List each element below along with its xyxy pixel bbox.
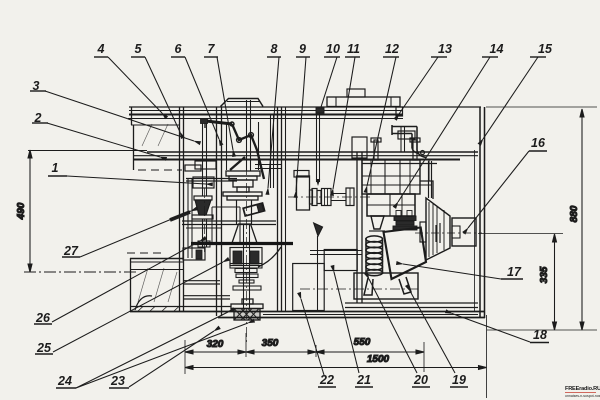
dashed line y170	[138, 169, 182, 171]
leader 24b	[76, 323, 248, 388]
leader 11	[333, 57, 355, 189]
svg-text:550: 550	[354, 337, 371, 348]
dark nub at rod top	[201, 119, 208, 124]
leader 19	[410, 291, 455, 373]
left funnel pulley dark	[192, 196, 213, 247]
left upper band	[131, 107, 180, 170]
svg-text:26: 26	[35, 311, 51, 325]
leader 16	[468, 151, 529, 228]
crank linkage	[205, 119, 264, 179]
big cone 17	[384, 228, 427, 280]
svg-text:10: 10	[326, 42, 340, 56]
svg-text:23: 23	[110, 374, 125, 388]
gear case verticals	[211, 207, 213, 243]
svg-text:onnaises-n-sospot-nossi: onnaises-n-sospot-nossi	[565, 394, 600, 398]
svg-text:1500: 1500	[367, 354, 390, 365]
open box base	[293, 264, 325, 311]
rod part 10	[316, 113, 320, 186]
leader 18	[452, 314, 530, 343]
leader 6	[185, 57, 219, 139]
dim 490	[16, 150, 32, 272]
left lower band	[130, 258, 184, 312]
leader 5	[145, 57, 180, 132]
svg-text:14: 14	[490, 42, 504, 56]
dash line y253	[127, 252, 165, 254]
arc housing right	[258, 247, 281, 267]
svg-text:6: 6	[175, 42, 183, 56]
svg-text:490: 490	[16, 202, 27, 220]
leader 27	[80, 211, 191, 257]
svg-text:22: 22	[319, 373, 334, 387]
svg-text:25: 25	[36, 341, 52, 355]
svg-text:16: 16	[531, 136, 546, 150]
svg-text:12: 12	[385, 42, 399, 56]
output bell right	[415, 198, 482, 260]
oil pan	[354, 273, 418, 299]
shaft centerlines	[205, 165, 247, 344]
svg-text:19: 19	[452, 373, 466, 387]
svg-text:7: 7	[208, 42, 216, 56]
table lines	[133, 152, 478, 160]
dim 880	[486, 107, 597, 330]
leader 25	[53, 262, 223, 352]
leader 13	[399, 57, 438, 114]
collar discs	[393, 211, 417, 231]
spring coil	[366, 236, 383, 276]
stem verticals	[237, 200, 252, 224]
svg-text:27: 27	[63, 244, 79, 258]
shelf	[186, 178, 237, 258]
svg-text:13: 13	[438, 42, 452, 56]
short shelf right of cage	[255, 164, 281, 166]
motor body	[367, 194, 415, 216]
bracket step right	[420, 160, 433, 199]
svg-text:24: 24	[57, 374, 72, 388]
svg-text:15: 15	[538, 42, 553, 56]
posts	[180, 107, 286, 316]
cap trapezoid on beam	[221, 99, 264, 107]
funnel under motor left	[371, 216, 384, 229]
shelf y221	[182, 221, 276, 228]
rod pair x202-206	[203, 118, 207, 196]
mount block	[324, 250, 357, 271]
leader 24a	[76, 312, 228, 388]
legs	[364, 277, 411, 295]
leader 9	[296, 57, 306, 191]
leader 10	[321, 57, 337, 107]
bottom frame	[130, 303, 485, 318]
top beam	[128, 107, 481, 119]
leader 23	[129, 331, 214, 387]
vertical shaft	[230, 224, 262, 308]
cup flare	[232, 224, 257, 243]
svg-text:5: 5	[135, 42, 143, 56]
thick dark bar	[191, 242, 293, 245]
svg-text:9: 9	[299, 42, 306, 56]
tilted roller	[243, 203, 264, 216]
arc bottom-left	[135, 296, 152, 310]
svg-text:335: 335	[539, 266, 550, 283]
small lever on table	[314, 223, 323, 311]
deck lip	[396, 107, 403, 116]
dark bracket on beam	[316, 108, 324, 113]
left bearing bracket 26	[183, 248, 205, 260]
bottom pulley stack	[231, 299, 263, 320]
watermark	[565, 386, 600, 398]
svg-text:20: 20	[413, 373, 428, 387]
upper disc stack	[223, 171, 262, 200]
leader 17	[403, 264, 501, 279]
raised deck right	[327, 89, 400, 107]
dim 320/350/550 row	[185, 333, 424, 374]
leader 15	[483, 57, 538, 139]
svg-text:4: 4	[97, 42, 105, 56]
bearing block	[230, 248, 262, 266]
svg-text:21: 21	[356, 373, 371, 387]
svg-text:320: 320	[207, 339, 224, 350]
leader 26	[52, 241, 200, 322]
post feet lines	[183, 281, 230, 299]
leader 1	[67, 176, 206, 184]
dash centerline left upper	[28, 150, 147, 152]
leader 2	[47, 123, 160, 157]
dark pipe elbow	[170, 212, 190, 220]
svg-text:350: 350	[262, 338, 279, 349]
svg-text:11: 11	[347, 42, 360, 56]
leader 4	[108, 57, 162, 113]
studs on gearbox	[371, 138, 420, 160]
couplings on horizontal shaft	[294, 171, 354, 211]
gearbox left rects	[185, 161, 216, 188]
rod pair x270	[271, 114, 274, 188]
leader 7	[217, 57, 233, 150]
pan centerline	[300, 288, 420, 290]
cage verticals around upper stack	[227, 100, 259, 171]
right casing wall	[475, 107, 485, 318]
leader 3	[45, 91, 194, 141]
svg-text:880: 880	[569, 205, 580, 222]
svg-text:17: 17	[507, 265, 522, 279]
main shaft dash centerline	[288, 196, 370, 198]
leader 22	[301, 299, 324, 375]
leader 20	[369, 279, 417, 373]
dash line left lower	[24, 271, 136, 273]
leader 21	[334, 272, 359, 373]
leader 12	[367, 57, 396, 186]
bracket 13	[392, 125, 426, 158]
gearbox body right	[352, 131, 437, 303]
dim 1500 row	[185, 315, 487, 398]
svg-text:8: 8	[271, 42, 278, 56]
dim 335	[478, 234, 563, 331]
leader 14	[398, 57, 490, 202]
leader 8	[268, 57, 279, 188]
svg-text:FREEradio.RU: FREEradio.RU	[565, 386, 600, 392]
svg-text:1: 1	[52, 161, 59, 175]
